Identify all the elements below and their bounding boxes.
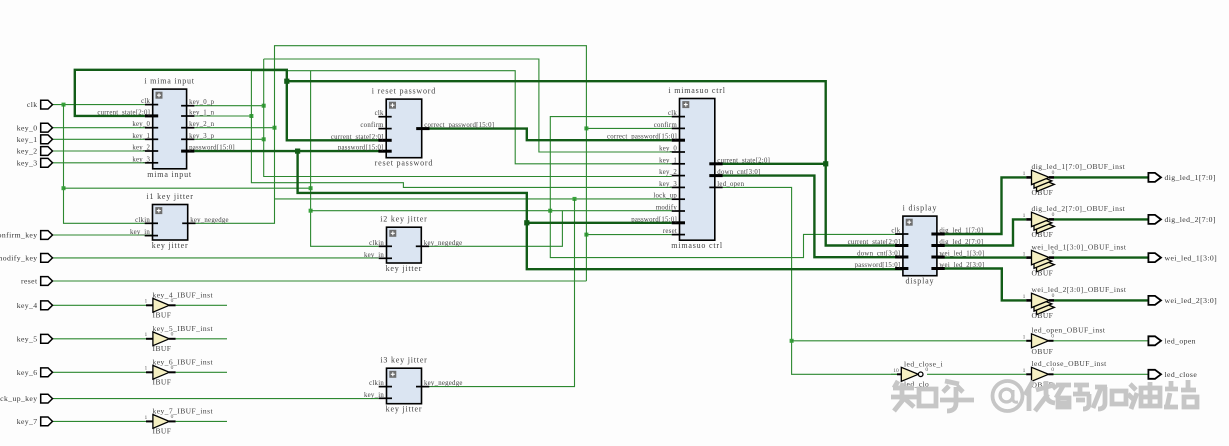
svg-text:key_3: key_3 [132, 156, 150, 163]
bus password from mima_input [194, 149, 380, 154]
wire key_6 IBUF output [176, 371, 227, 373]
svg-text:key_0: key_0 [17, 123, 38, 132]
buffer led_open_OBUF_inst [1023, 326, 1106, 356]
wire led_close_i out to OBUF [927, 373, 1026, 375]
svg-text:confirm: confirm [360, 122, 384, 129]
svg-text:confirm: confirm [654, 122, 678, 129]
wire key_4 IBUF input [53, 304, 147, 306]
svg-text:led_open: led_open [717, 181, 744, 188]
svg-text:0: 0 [1052, 212, 1055, 218]
module i_display (display) [848, 204, 985, 286]
output port dig_led_2[7:0] [1148, 215, 1215, 224]
svg-text:key_negedge: key_negedge [424, 380, 463, 387]
svg-text:i1 key jitter: i1 key jitter [146, 192, 193, 201]
svg-text:i display: i display [903, 204, 938, 213]
svg-text:clkin: clkin [135, 217, 150, 224]
module i3 key_jitter [364, 356, 463, 414]
bus dig_led_2 to OBUF [937, 219, 1026, 245]
svg-text:key_1: key_1 [132, 133, 150, 140]
svg-text:key_6_IBUF_inst: key_6_IBUF_inst [153, 357, 214, 366]
module i1 key_jitter [130, 192, 229, 250]
svg-text:OBUF: OBUF [1032, 347, 1054, 356]
svg-text:0: 0 [1051, 333, 1054, 339]
wire key_7 IBUF input [53, 420, 147, 422]
svg-text:0: 0 [1052, 170, 1055, 176]
wire led_open OBUF to port [1054, 340, 1149, 342]
svg-text:key_4_IBUF_inst: key_4_IBUF_inst [153, 290, 214, 299]
input port key_0 [17, 123, 53, 132]
input port key_2 [17, 147, 53, 156]
svg-text:key_4: key_4 [17, 301, 38, 310]
buffer wei_led_1[3:0]_OBUF_inst [1023, 242, 1127, 277]
buffer wei_led_2[3:0]_OBUF_inst [1023, 285, 1127, 320]
svg-text:reset password: reset password [375, 159, 434, 168]
svg-text:key_5: key_5 [17, 334, 38, 343]
wire key_7 IBUF output [176, 420, 227, 422]
wire clk branch horizontal [64, 186, 313, 190]
module i_reset_password (reset_password) [331, 87, 494, 168]
svg-text:dig_led_1[7:0]_OBUF_inst: dig_led_1[7:0]_OBUF_inst [1032, 162, 1126, 171]
input port reset [21, 277, 53, 286]
svg-text:key_negedge: key_negedge [424, 240, 463, 247]
output port led_open [1148, 336, 1195, 345]
wire riser x310 to i2 clkin [309, 71, 379, 247]
wire i2 key_negedge riser [421, 211, 562, 246]
svg-text:key_0: key_0 [659, 146, 677, 153]
svg-text:dig_led_2[7:0]: dig_led_2[7:0] [939, 239, 983, 246]
svg-text:key_0_p: key_0_p [189, 99, 215, 106]
buffer dig_led_1[7:0]_OBUF_inst [1023, 162, 1126, 197]
module i_mima_input (mima_input) [97, 77, 235, 179]
input port key_5 [17, 334, 53, 343]
svg-text:clk: clk [891, 228, 900, 235]
bus current_state from ctrl output [715, 163, 826, 165]
svg-text:key jitter: key jitter [152, 241, 189, 250]
svg-text:IBUF: IBUF [153, 378, 172, 387]
input port lock_up_key [0, 394, 53, 403]
svg-text:mima input: mima input [147, 170, 192, 179]
svg-text:down_cnt[3:0]: down_cnt[3:0] [857, 251, 900, 258]
svg-text:key_3: key_3 [17, 158, 38, 167]
svg-text:dig_led_2[7:0]: dig_led_2[7:0] [1165, 215, 1216, 224]
svg-text:clk: clk [375, 110, 384, 117]
input port key_3 [17, 158, 53, 167]
bus wei_led_1 OBUF to port [1054, 256, 1148, 258]
svg-text:key_7_IBUF_inst: key_7_IBUF_inst [153, 406, 214, 415]
svg-text:password[15:0]: password[15:0] [631, 216, 677, 223]
wire modify net to mimasuo_ctrl [311, 209, 672, 213]
wire key_4 IBUF output [176, 304, 227, 306]
svg-text:password[15:0]: password[15:0] [189, 145, 235, 152]
wire reset long line [53, 280, 587, 282]
bus wei_led_1 to OBUF [937, 256, 1026, 258]
wire clk vertical trunk to i1 clkin [62, 105, 145, 224]
svg-text:password[15:0]: password[15:0] [855, 262, 901, 269]
wire key_0 port to mima_input [53, 127, 145, 129]
svg-text:1: 1 [1023, 335, 1026, 341]
svg-text:key_1: key_1 [659, 157, 677, 164]
svg-text:i2 key jitter: i2 key jitter [380, 215, 427, 224]
svg-text:10: 10 [893, 368, 899, 374]
wire key_5 IBUF input [53, 338, 147, 340]
wire clk pole to ctrl clk and display clk [550, 117, 903, 258]
wire key_0 riser to ctrl key_0 [264, 59, 672, 152]
svg-text:0: 0 [171, 414, 174, 420]
svg-text:i3 key jitter: i3 key jitter [380, 356, 427, 365]
svg-text:1: 1 [1023, 294, 1026, 300]
svg-text:IBUF: IBUF [153, 427, 172, 436]
svg-text:confirm_key: confirm_key [0, 231, 38, 240]
wire key_2_n stub to riser [194, 126, 276, 130]
svg-text:key_2_n: key_2_n [189, 121, 215, 128]
svg-text:1: 1 [1023, 251, 1026, 257]
input port confirm_key [0, 231, 53, 240]
bus wei_led_2 OBUF to port [1054, 299, 1148, 301]
svg-text:0: 0 [925, 367, 928, 373]
input port clk [27, 100, 53, 109]
svg-text:clkin: clkin [369, 380, 384, 387]
svg-text:0: 0 [171, 332, 174, 338]
wire key_3_p into riser [194, 137, 265, 141]
svg-text:reset: reset [21, 277, 38, 286]
inverter led_close_i [893, 359, 943, 388]
svg-text:OBUF: OBUF [1032, 311, 1054, 320]
wire key_1 riser top to ctrl key_1 [251, 71, 671, 164]
svg-text:key_2: key_2 [132, 145, 150, 152]
svg-text:key_7: key_7 [17, 417, 38, 426]
svg-text:key_in: key_in [130, 229, 150, 236]
svg-text:key_2: key_2 [659, 169, 677, 176]
watermark zhihu text [891, 380, 1197, 411]
svg-text:OBUF: OBUF [1032, 268, 1054, 277]
svg-text:correct_password[15:0]: correct_password[15:0] [607, 134, 677, 141]
wire lock_up_key to i3 key_in [53, 398, 379, 400]
svg-text:password[15:0]: password[15:0] [338, 145, 384, 152]
wire key_1 port to mima_input [53, 138, 145, 140]
svg-text:lock_up: lock_up [653, 193, 677, 200]
svg-text:key_1: key_1 [17, 135, 38, 144]
svg-text:wei_led_1[3:0]_OBUF_inst: wei_led_1[3:0]_OBUF_inst [1032, 242, 1127, 251]
wire key_1_n into riser [194, 114, 253, 118]
svg-text:clkin: clkin [369, 240, 384, 247]
wire riser x251 to ctrl key_3 [251, 71, 671, 188]
wire reset branch to ctrl [584, 233, 671, 237]
svg-text:key_1_n: key_1_n [189, 110, 215, 117]
wire riser x263 to ctrl key_2 [264, 59, 672, 177]
svg-text:clk: clk [668, 110, 677, 117]
bus wei_led_2 to OBUF [937, 269, 1026, 301]
svg-text:i mimasuo ctrl: i mimasuo ctrl [668, 86, 725, 95]
buffer dig_led_2[7:0]_OBUF_inst [1023, 204, 1126, 239]
svg-text:i mima input: i mima input [144, 77, 195, 86]
buffer key_5_IBUF_inst [144, 324, 213, 353]
buffer key_7_IBUF_inst [144, 406, 213, 435]
svg-text:correct_password[15:0]: correct_password[15:0] [424, 122, 494, 129]
svg-text:key jitter: key jitter [386, 405, 423, 414]
svg-text:dig_led_2[7:0]_OBUF_inst: dig_led_2[7:0]_OBUF_inst [1032, 204, 1126, 213]
wire confirm branch to ctrl [584, 126, 671, 130]
svg-text:led_open_OBUF_inst: led_open_OBUF_inst [1032, 326, 1106, 335]
svg-text:IBUF: IBUF [153, 311, 172, 320]
input port key_6 [17, 368, 53, 377]
svg-text:key_in: key_in [364, 252, 384, 259]
svg-text:key_3: key_3 [659, 181, 677, 188]
svg-text:display: display [906, 277, 935, 286]
bus dig_led_2 OBUF to port [1054, 218, 1148, 220]
svg-text:clk: clk [141, 98, 150, 105]
svg-text:current_state[2:0]: current_state[2:0] [717, 157, 770, 164]
svg-text:mimasuo ctrl: mimasuo ctrl [671, 241, 723, 250]
wire key_3 port to mima_input [53, 162, 145, 164]
svg-text:1: 1 [1023, 213, 1026, 219]
svg-text:key_0: key_0 [132, 121, 150, 128]
svg-text:led_close: led_close [1165, 370, 1198, 379]
svg-text:1: 1 [144, 415, 147, 421]
output port wei_led_1[3:0] [1148, 253, 1217, 262]
buffer key_4_IBUF_inst [144, 290, 213, 319]
svg-text:dig_led_1[7:0]: dig_led_1[7:0] [1165, 173, 1216, 182]
svg-text:lock_up_key: lock_up_key [0, 394, 38, 403]
svg-text:1: 1 [144, 299, 147, 305]
svg-text:0: 0 [171, 365, 174, 371]
wire led_close_i input stub [891, 373, 897, 375]
svg-text:key_in: key_in [364, 392, 384, 399]
svg-text:wei_led_2[3:0]: wei_led_2[3:0] [1165, 296, 1218, 305]
bus password to ctrl [527, 222, 672, 224]
bus dig_led_1 OBUF to port [1054, 176, 1148, 178]
input port key_4 [17, 301, 53, 310]
wire i1 key_negedge trunk [196, 46, 587, 281]
svg-text:wei_led_1[3:0]: wei_led_1[3:0] [939, 251, 984, 258]
bus dig_led_1 to OBUF [937, 177, 1026, 234]
svg-text:0: 0 [1052, 293, 1055, 299]
buffer led_close_OBUF_inst [1023, 359, 1108, 389]
input port key_1 [17, 135, 53, 144]
svg-text:wei_led_2[3:0]_OBUF_inst: wei_led_2[3:0]_OBUF_inst [1032, 285, 1127, 294]
wire led_open to OBUF [792, 340, 1027, 342]
svg-text:IBUF: IBUF [153, 344, 172, 353]
svg-text:dig_led_1[7:0]: dig_led_1[7:0] [939, 228, 983, 235]
wire key_5 IBUF output [176, 338, 227, 340]
svg-text:led_close_OBUF_inst: led_close_OBUF_inst [1032, 359, 1108, 368]
bus current_state main run [287, 81, 903, 245]
svg-text:clk: clk [27, 100, 38, 109]
wire lock_up horizontal [275, 197, 672, 201]
input port key_7 [17, 417, 53, 426]
bus current_state to mima_input [75, 70, 380, 141]
svg-text:key_3_p: key_3_p [189, 133, 215, 140]
svg-text:led_close_i: led_close_i [904, 359, 943, 368]
svg-text:1: 1 [144, 366, 147, 372]
svg-text:key_negedge: key_negedge [190, 217, 229, 224]
bus down_cnt to display [715, 176, 903, 258]
output port wei_led_2[3:0] [1148, 296, 1217, 305]
svg-text:0: 0 [1051, 367, 1054, 373]
svg-text:key_2: key_2 [17, 147, 38, 156]
svg-text:0: 0 [171, 298, 174, 304]
wire confirm_key to i1 key_in [53, 234, 153, 236]
svg-text:key_6: key_6 [17, 368, 38, 377]
bus password trunk [298, 151, 903, 269]
input port modify_key [0, 254, 53, 263]
svg-text:OBUF: OBUF [1032, 188, 1054, 197]
buffer key_6_IBUF_inst [144, 357, 213, 386]
svg-text:i reset password: i reset password [372, 87, 436, 96]
svg-text:modify: modify [656, 205, 677, 212]
svg-text:key_5_IBUF_inst: key_5_IBUF_inst [153, 324, 214, 333]
output port led_close [1148, 370, 1197, 379]
svg-text:down_cnt[3:0]: down_cnt[3:0] [717, 169, 760, 176]
svg-text:led_open: led_open [1165, 337, 1196, 346]
wire led_close OBUF to port [1054, 373, 1149, 375]
bus correct_password [422, 129, 672, 141]
svg-text:wei_led_2[3:0]: wei_led_2[3:0] [939, 262, 984, 269]
wire clk port to mima_input clk [53, 103, 145, 107]
wire i3 key_negedge riser to lock_up [422, 199, 575, 387]
svg-text:current_state[2:0]: current_state[2:0] [331, 134, 384, 141]
svg-text:modify_key: modify_key [0, 254, 38, 263]
svg-text:reset: reset [663, 228, 677, 235]
wire key_2 port to mima_input [53, 150, 145, 152]
output port dig_led_1[7:0] [1148, 173, 1215, 182]
svg-text:1: 1 [144, 332, 147, 338]
wire key_6 IBUF input [53, 371, 147, 373]
svg-text:1: 1 [1023, 171, 1026, 177]
svg-text:0: 0 [1052, 250, 1055, 256]
wire key_0_p into riser [194, 104, 265, 108]
svg-text:OBUF: OBUF [1032, 230, 1054, 239]
svg-text:wei_led_1[3:0]: wei_led_1[3:0] [1165, 253, 1218, 262]
svg-text:current_state[2:0]: current_state[2:0] [848, 239, 901, 246]
svg-text:current_state[2:0]: current_state[2:0] [97, 109, 150, 116]
svg-text:key jitter: key jitter [386, 264, 423, 273]
wire modify_key to i2 key_in [53, 257, 379, 259]
svg-text:1: 1 [1023, 368, 1026, 374]
module i2 key_jitter [364, 215, 462, 273]
module i_mimasuo_ctrl (mimasuo_ctrl) [607, 86, 770, 250]
wire led_open net [715, 187, 897, 374]
